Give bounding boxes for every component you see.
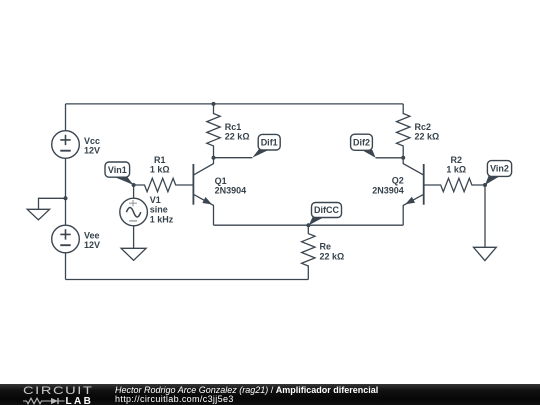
ground GND3 below Vin2 [474, 247, 497, 260]
wire Dif2 [376, 157, 404, 159]
svg-text:22 kΩ: 22 kΩ [320, 251, 345, 261]
voltage source Vcc [52, 131, 80, 159]
node Vin2 [483, 183, 487, 187]
svg-text:Dif1: Dif1 [261, 137, 278, 147]
label value Q2 2N3904 [372, 176, 404, 196]
node flag Dif1 [252, 134, 280, 157]
node Vin1 [132, 183, 136, 187]
label value Q1 2N3904 [215, 176, 247, 196]
wire top rail [66, 103, 404, 105]
node top rail Rc1 [212, 102, 216, 106]
label value Vee 12V [84, 230, 100, 250]
resistor R1 [134, 178, 194, 191]
wire bottom rail [66, 279, 309, 281]
footer bar [0, 384, 540, 405]
svg-text:Rc1: Rc1 [225, 122, 242, 132]
label value V1 sine 1 kHz [150, 195, 174, 224]
svg-text:sine: sine [150, 205, 168, 215]
node flag DifCC [309, 203, 342, 226]
logo CIRCUIT [23, 385, 94, 397]
svg-text:22 kΩ: 22 kΩ [415, 132, 440, 142]
footer text [115, 386, 378, 404]
resistor Re [302, 225, 315, 279]
svg-text:Rc2: Rc2 [415, 122, 432, 132]
svg-text:Vcc: Vcc [84, 136, 100, 146]
junction node dots [64, 102, 488, 227]
node Dif1 collector [212, 156, 216, 160]
svg-text:Dif2: Dif2 [353, 137, 370, 147]
wire left vertical to Vcc [65, 104, 67, 131]
svg-text:2N3904: 2N3904 [215, 186, 247, 196]
svg-text:R1: R1 [154, 155, 166, 165]
resistor R2 [424, 178, 485, 191]
svg-text:Re: Re [320, 242, 332, 252]
resistor Rc2 [397, 104, 410, 158]
svg-text:DifCC: DifCC [314, 205, 339, 215]
wire Vin2 vertical [484, 185, 486, 247]
label value Rc1 22 kOhm [225, 122, 250, 142]
voltage source Vee [52, 225, 80, 253]
svg-text:1 kΩ: 1 kΩ [150, 165, 170, 175]
label value Rc2 22 kOhm [415, 122, 440, 142]
svg-text:Q2: Q2 [392, 176, 404, 186]
svg-text:2N3904: 2N3904 [372, 185, 404, 195]
svg-text:22 kΩ: 22 kΩ [225, 132, 250, 142]
ground GND2 below V1 [121, 248, 146, 260]
node ground tap [64, 196, 68, 200]
logo doodle resistor diode [23, 397, 65, 405]
label value Re 22 kOhm [320, 242, 345, 262]
wire Dif1 [214, 157, 253, 159]
ground GND1 left [27, 209, 49, 220]
transistor Q1 2N3904 [193, 158, 213, 226]
svg-text:Q1: Q1 [215, 176, 227, 186]
svg-text:R2: R2 [451, 155, 463, 165]
transistor Q2 2N3904 [403, 158, 424, 225]
node flag Dif2 [351, 134, 376, 158]
logo LAB [66, 396, 94, 405]
label value Vcc 12V [84, 136, 100, 156]
node Dif2 collector [401, 156, 405, 160]
resistor Rc1 [207, 104, 220, 158]
svg-text:Vin1: Vin1 [108, 165, 127, 175]
svg-text:V1: V1 [150, 195, 161, 205]
wire Vcc to ground junction [65, 158, 67, 225]
node flag Vin2 [485, 161, 512, 185]
label value R2 1 kOhm [446, 155, 466, 175]
svg-text:Vee: Vee [84, 230, 100, 240]
wire emitter rail DifCC [214, 224, 404, 226]
svg-text:1 kHz: 1 kHz [150, 214, 174, 224]
node DifCC [306, 223, 310, 227]
wire Vee to bottom rail [65, 253, 67, 280]
node flag Vin1 [105, 162, 134, 185]
svg-text:12V: 12V [84, 240, 100, 250]
voltage source V1 sine [120, 185, 148, 248]
wire ground tap [39, 198, 66, 209]
label value R1 1 kOhm [150, 155, 170, 175]
svg-text:12V: 12V [84, 146, 100, 156]
svg-text:1 kΩ: 1 kΩ [446, 165, 466, 175]
svg-text:Vin2: Vin2 [490, 164, 509, 174]
